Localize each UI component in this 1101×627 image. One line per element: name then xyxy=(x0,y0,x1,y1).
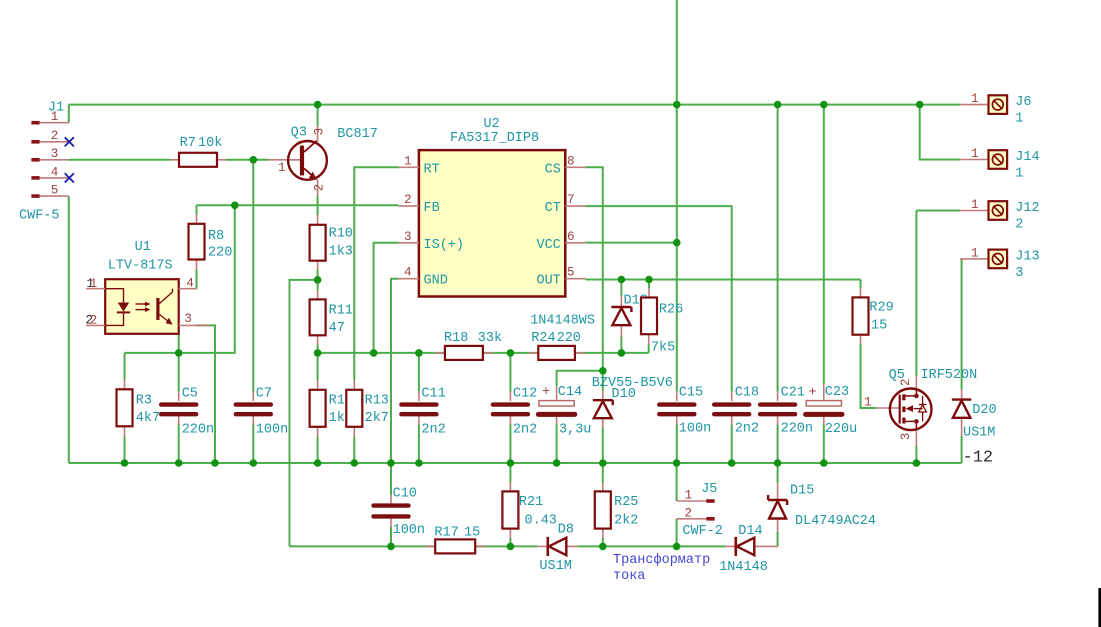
svg-text:C14: C14 xyxy=(558,385,582,400)
wire VCC vertical bus down to C15 xyxy=(676,105,678,392)
connector J6 xyxy=(960,92,1031,127)
svg-text:2: 2 xyxy=(1015,218,1023,233)
wire J12 line xyxy=(916,210,960,212)
svg-text:4k7: 4k7 xyxy=(136,411,160,426)
svg-text:GND: GND xyxy=(424,274,448,289)
wire R29 bottom to Q5 gate xyxy=(861,344,877,408)
svg-text:C11: C11 xyxy=(421,386,445,401)
svg-text:1: 1 xyxy=(971,92,979,106)
svg-text:R3: R3 xyxy=(136,394,152,409)
wire rail to C10 xyxy=(390,463,392,495)
wire U2 IS+ down to mid wire xyxy=(374,243,399,353)
transistor Q3 xyxy=(269,126,378,196)
svg-text:OUT: OUT xyxy=(536,274,560,289)
svg-text:7: 7 xyxy=(567,193,575,207)
wire U1 pin3 down to rail xyxy=(197,325,216,463)
resistor R17 xyxy=(425,525,485,553)
capacitor C5 xyxy=(161,386,214,437)
wire D12 top stub xyxy=(620,280,622,297)
wire R12 bottom to rail xyxy=(317,437,319,464)
wire J1 pin3 to R7 xyxy=(69,159,170,161)
wire J1 pin1 stub xyxy=(68,105,70,123)
svg-text:2n2: 2n2 xyxy=(421,422,445,437)
svg-text:D15: D15 xyxy=(790,483,814,498)
connector J13 xyxy=(960,246,1040,281)
wire R3 bottom to rail xyxy=(124,437,126,464)
svg-text:R21: R21 xyxy=(519,495,543,510)
wire mid node down to R3 xyxy=(124,353,126,380)
wire U2 CT right and down to C18 xyxy=(585,206,731,391)
wire rail to R25 xyxy=(602,463,604,482)
wire U2 GND down to rail xyxy=(391,279,399,463)
svg-text:2: 2 xyxy=(684,506,692,520)
wire C15 bottom to rail xyxy=(676,425,678,464)
resistor R3 xyxy=(117,380,161,437)
svg-text:2: 2 xyxy=(90,314,98,328)
mosfet Q5 IRF520N xyxy=(864,368,977,446)
capacitor C10 xyxy=(374,486,426,538)
svg-text:1: 1 xyxy=(1015,112,1023,127)
wire R11 bottom to mid wire xyxy=(317,345,319,353)
connector J1 xyxy=(19,101,69,224)
svg-text:D20: D20 xyxy=(972,403,996,418)
svg-text:2k2: 2k2 xyxy=(614,513,638,528)
wire C11 top stub xyxy=(418,353,420,392)
svg-text:R26: R26 xyxy=(659,303,683,318)
capacitor C23 polarized xyxy=(806,384,858,437)
label current transformer xyxy=(613,553,710,584)
wire top vertical entering sheet xyxy=(676,0,678,105)
capacitor C12 xyxy=(493,386,537,437)
wire C7 bottom to rail xyxy=(252,425,254,464)
svg-text:8: 8 xyxy=(567,154,575,168)
resistor R7 xyxy=(170,136,226,167)
svg-text:47: 47 xyxy=(329,321,345,336)
zener D10 BZV55-B5V6 xyxy=(592,376,673,428)
svg-text:J12: J12 xyxy=(1015,201,1039,216)
wire Q5 source to rail xyxy=(915,446,917,464)
diode D20 US1M xyxy=(952,389,997,440)
wire R26 top stub xyxy=(648,280,650,289)
svg-text:3: 3 xyxy=(51,147,59,161)
svg-text:1: 1 xyxy=(971,198,979,212)
wire C18 bottom to rail xyxy=(731,425,733,464)
wire base node down to C7 xyxy=(252,160,254,392)
svg-text:VCC: VCC xyxy=(536,238,560,253)
svg-text:J6: J6 xyxy=(1015,95,1031,110)
svg-text:FA5317_DIP8: FA5317_DIP8 xyxy=(450,131,539,146)
wire rail to J5 pin1 xyxy=(676,463,678,501)
svg-text:J13: J13 xyxy=(1015,249,1039,264)
capacitor C7 xyxy=(236,386,288,437)
capacitor C18 xyxy=(714,385,759,436)
svg-text:R10: R10 xyxy=(329,227,353,242)
svg-text:5: 5 xyxy=(567,266,575,280)
diode D8 US1M xyxy=(537,522,578,574)
wire R13 bottom to rail xyxy=(353,437,355,464)
wire Q3 emitter to R10 xyxy=(317,196,319,216)
svg-text:-12: -12 xyxy=(963,449,994,468)
diode D12 1N4148WS xyxy=(530,294,648,337)
svg-text:R8: R8 xyxy=(208,229,224,244)
svg-text:R18: R18 xyxy=(444,331,468,346)
svg-text:3: 3 xyxy=(313,128,327,136)
wire top bus down to C23 xyxy=(823,105,825,384)
wire U2 VCC to vertical bus xyxy=(585,242,676,244)
svg-text:C10: C10 xyxy=(393,486,417,501)
svg-text:1: 1 xyxy=(971,147,979,161)
connector J12 xyxy=(960,198,1040,233)
resistor R13 xyxy=(346,380,389,437)
svg-text:1: 1 xyxy=(971,246,979,260)
wire FB junction down to mid node xyxy=(125,205,235,353)
svg-text:C12: C12 xyxy=(513,386,537,401)
no-connect x J1 pin4 xyxy=(65,173,74,182)
wire top bus down to C21 xyxy=(777,105,779,392)
svg-text:C15: C15 xyxy=(679,385,703,400)
svg-text:1: 1 xyxy=(1015,167,1023,182)
svg-text:CWF-2: CWF-2 xyxy=(682,524,723,539)
svg-text:D14: D14 xyxy=(738,524,762,539)
wire OUT corner down to R29 xyxy=(860,280,862,289)
svg-text:+: + xyxy=(809,386,817,401)
svg-text:C23: C23 xyxy=(825,385,849,400)
svg-text:4: 4 xyxy=(186,277,194,291)
svg-text:2: 2 xyxy=(51,129,59,143)
resistor R29 xyxy=(853,289,894,345)
wire C14 bottom to rail xyxy=(556,425,558,464)
wire C14 top to CS vertical xyxy=(557,371,603,386)
wire -12 rail xyxy=(69,462,962,464)
svg-text:10k: 10k xyxy=(198,136,222,151)
svg-text:R13: R13 xyxy=(365,394,389,409)
resistor R24 xyxy=(529,331,586,360)
svg-text:6: 6 xyxy=(567,230,575,244)
svg-text:2: 2 xyxy=(313,184,327,192)
resistor R11 xyxy=(310,290,353,345)
wire bottom bus left segment xyxy=(290,545,538,547)
resistor R25 xyxy=(595,482,639,538)
svg-text:100n: 100n xyxy=(679,421,711,436)
svg-text:J14: J14 xyxy=(1015,150,1039,165)
wire U2 OUT line xyxy=(585,279,860,281)
svg-text:2n2: 2n2 xyxy=(735,421,759,436)
connector J5 xyxy=(677,482,723,539)
label -12 net xyxy=(963,449,994,468)
svg-text:1k3: 1k3 xyxy=(329,244,353,259)
svg-text:220: 220 xyxy=(557,331,581,346)
diode D14 1N4148 xyxy=(719,524,777,575)
connector J14 xyxy=(960,147,1040,182)
wire U1 corner stub to C5 xyxy=(178,334,180,392)
svg-text:C7: C7 xyxy=(256,386,272,401)
svg-text:5: 5 xyxy=(51,184,59,198)
wire R10 bottom junction R11 top xyxy=(317,270,319,291)
wire D20 bottom to rail end xyxy=(961,436,963,463)
svg-text:тока: тока xyxy=(613,569,645,584)
svg-text:C21: C21 xyxy=(781,385,805,400)
svg-text:3: 3 xyxy=(404,230,412,244)
svg-text:R11: R11 xyxy=(329,304,353,319)
wire FB line xyxy=(197,204,399,206)
svg-text:220u: 220u xyxy=(825,422,857,437)
capacitor C15 xyxy=(659,385,711,436)
resistor R21 xyxy=(502,482,557,538)
svg-text:2k7: 2k7 xyxy=(365,411,389,426)
capacitor C14 polarized xyxy=(538,385,591,438)
svg-text:J1: J1 xyxy=(48,101,64,116)
svg-text:1: 1 xyxy=(278,161,286,175)
wire D10 bottom to rail xyxy=(602,428,604,464)
IC U2 FA5317_DIP8 xyxy=(399,117,586,297)
wire C12 bottom to rail xyxy=(509,425,511,464)
wire R25 bottom to bottom bus xyxy=(602,538,604,546)
wire R8 bottom to U1 pin4 xyxy=(196,270,198,289)
svg-text:15: 15 xyxy=(871,318,887,333)
wire top bus xyxy=(69,104,960,106)
screen edge artifact xyxy=(1098,588,1101,627)
svg-text:1: 1 xyxy=(404,154,412,168)
svg-text:US1M: US1M xyxy=(963,425,995,440)
wire rail to D15 xyxy=(777,463,779,483)
resistor R26 xyxy=(641,289,683,356)
wire C11 bottom to rail xyxy=(418,425,420,464)
svg-text:CS: CS xyxy=(545,162,561,177)
svg-text:3,3u: 3,3u xyxy=(559,422,591,437)
svg-text:Трансформатр: Трансформатр xyxy=(613,553,710,568)
svg-text:1: 1 xyxy=(864,395,872,409)
wire U2 RT to R13 xyxy=(354,167,398,380)
svg-text:R29: R29 xyxy=(869,301,893,316)
svg-text:DL4749AC24: DL4749AC24 xyxy=(795,514,876,529)
svg-text:U2: U2 xyxy=(484,117,500,132)
svg-text:US1M: US1M xyxy=(539,559,571,574)
svg-text:0.43: 0.43 xyxy=(525,513,557,528)
svg-text:C18: C18 xyxy=(735,385,759,400)
wire J13 down to D20 xyxy=(961,259,963,389)
svg-text:CT: CT xyxy=(545,201,561,216)
svg-text:1: 1 xyxy=(90,277,98,291)
svg-text:2n2: 2n2 xyxy=(513,422,537,437)
svg-text:D10: D10 xyxy=(612,387,636,402)
wire Q5 drain up to J12 line xyxy=(915,211,917,377)
svg-text:4: 4 xyxy=(404,266,412,280)
wire bottom bus middle segment xyxy=(578,545,725,547)
svg-text:3: 3 xyxy=(1015,266,1023,281)
wire R10-R11 node to bottom branch xyxy=(290,280,318,547)
svg-text:C5: C5 xyxy=(182,386,198,401)
svg-text:220n: 220n xyxy=(182,422,214,437)
svg-text:220n: 220n xyxy=(781,421,813,436)
capacitor C11 xyxy=(401,386,445,437)
svg-text:R7: R7 xyxy=(180,136,196,151)
svg-text:Q3: Q3 xyxy=(291,126,307,141)
svg-text:3: 3 xyxy=(899,433,913,441)
wire mid bus xyxy=(318,352,649,354)
svg-text:D8: D8 xyxy=(558,522,574,537)
resistor R12 xyxy=(310,380,353,437)
svg-text:1k: 1k xyxy=(329,411,345,426)
wire D12 bottom to mid wire xyxy=(620,337,622,353)
resistor R10 xyxy=(310,215,353,270)
no-connect x J1 pin2 xyxy=(65,137,74,146)
svg-text:1N4148: 1N4148 xyxy=(719,560,768,575)
zener D15 DL4749AC24 xyxy=(768,483,876,532)
svg-text:RT: RT xyxy=(424,162,440,177)
svg-text:CWF-5: CWF-5 xyxy=(19,208,60,223)
resistor R8 xyxy=(189,214,233,270)
wire R26 bottom to mid wire xyxy=(648,344,650,353)
wire R12 top stub xyxy=(317,353,319,380)
wire U2 CS right and down to D10 xyxy=(585,167,602,390)
svg-text:2: 2 xyxy=(404,193,412,207)
svg-text:15: 15 xyxy=(464,525,480,540)
svg-text:R17: R17 xyxy=(434,525,458,540)
wire Q3 collector to top bus xyxy=(317,105,319,126)
wire rail to R21 xyxy=(509,463,511,482)
svg-text:33k: 33k xyxy=(478,331,502,346)
svg-text:220: 220 xyxy=(208,246,232,261)
svg-text:2: 2 xyxy=(899,379,913,387)
svg-text:R24: R24 xyxy=(531,331,555,346)
svg-text:BC817: BC817 xyxy=(337,127,378,142)
wire C5 bottom to rail xyxy=(178,425,180,464)
svg-text:1N4148WS: 1N4148WS xyxy=(530,314,595,329)
svg-text:LTV-817S: LTV-817S xyxy=(108,259,173,274)
svg-text:+: + xyxy=(542,385,550,400)
svg-text:7k5: 7k5 xyxy=(651,341,675,356)
optocoupler U1 xyxy=(86,240,210,334)
svg-text:IS(+): IS(+) xyxy=(424,238,465,253)
wire R8 top stub xyxy=(196,205,198,214)
svg-text:3: 3 xyxy=(184,312,192,326)
svg-text:4: 4 xyxy=(51,165,59,179)
wire D15 bottom to D14 xyxy=(777,532,779,546)
wire C10 bottom to bottom bus xyxy=(390,527,392,546)
wire C21 bottom to rail xyxy=(777,425,779,464)
wire R21 bottom to bottom bus xyxy=(509,538,511,546)
wire C12 top stub xyxy=(509,353,511,392)
wire J5 pin2 down to bottom bus xyxy=(676,519,678,547)
svg-text:J5: J5 xyxy=(701,482,717,497)
wire C23 bottom to rail xyxy=(823,425,825,464)
svg-text:100n: 100n xyxy=(256,422,288,437)
svg-text:FB: FB xyxy=(424,201,440,216)
resistor R18 xyxy=(435,331,502,360)
wire top bus to J14 xyxy=(920,105,960,160)
svg-text:1: 1 xyxy=(684,489,692,503)
svg-text:U1: U1 xyxy=(135,240,151,255)
svg-text:100n: 100n xyxy=(393,523,425,538)
wire R7 to Q3 base node xyxy=(226,159,269,161)
svg-text:IRF520N: IRF520N xyxy=(921,368,978,383)
capacitor C21 xyxy=(760,385,813,436)
wire J1 pin5 down to rail xyxy=(68,196,70,463)
svg-text:R25: R25 xyxy=(614,495,638,510)
